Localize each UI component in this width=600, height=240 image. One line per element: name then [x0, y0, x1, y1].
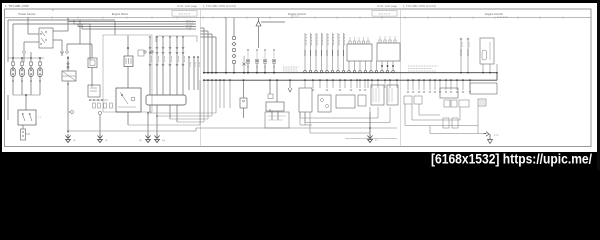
wire to P2a [243, 80, 245, 98]
symbol chain [232, 36, 235, 39]
wire into JC1 2 [162, 37, 164, 95]
page1 legend box [172, 11, 197, 17]
header column ticks [27, 17, 29, 19]
component box P3b with circles [318, 95, 331, 112]
ring connectors on bus A [304, 70, 307, 73]
wire below K4 [264, 63, 266, 73]
ignition switch SW1 [39, 28, 53, 48]
junction G2 stair [147, 112, 149, 114]
small boxes page3 lower pair [443, 118, 449, 128]
component box P2b [266, 102, 284, 111]
dot right col 1 [193, 56, 195, 58]
fusible link box FL1 [88, 58, 97, 68]
wire to connector F2 [21, 58, 23, 62]
sensor ring x100 [98, 111, 101, 114]
wire below JC1 2 [169, 105, 171, 119]
arrow ground tag [494, 134, 499, 136]
wire feed top B [13, 23, 90, 25]
small ring b [151, 51, 153, 53]
fuse row bottom bus [13, 94, 40, 96]
wire drop E [89, 24, 91, 60]
dot above K4 [264, 49, 265, 50]
fuse F3 [29, 68, 33, 77]
dot above K5 [273, 49, 274, 50]
page2 cont drop x208 [207, 31, 209, 73]
wire to connector F3 [30, 58, 32, 62]
component box P3a [299, 88, 312, 112]
letterbox top bar [0, 0, 600, 3]
wire colour tag 5 [184, 56, 186, 62]
page3 tiny note [497, 16, 508, 18]
dot below fuse F3 [30, 80, 32, 82]
page2 legend box [372, 11, 397, 17]
stub above J3 [30, 52, 32, 58]
dot below fuse F2 [21, 80, 23, 82]
hatched box page3 right [478, 99, 486, 106]
letterbox bottom bar [0, 152, 600, 170]
page separator 2-3 [400, 9, 402, 147]
letterbox right edge [597, 0, 600, 170]
fuse F4 [38, 68, 42, 77]
bus right end [496, 73, 498, 81]
tag right col 1 [194, 62, 196, 67]
bus B dots page3 and drops [407, 79, 409, 81]
junction block JB1 [18, 110, 36, 125]
connector box F1 [11, 62, 14, 65]
wire left down [7, 95, 9, 120]
svg-text:Engine Control: Engine Control [288, 12, 306, 16]
wire elbow 1 [73, 20, 75, 24]
wire above R2 [127, 67, 129, 89]
sensor ring x72 [71, 111, 74, 114]
wire below arrow [258, 26, 260, 48]
connector ring C1 [23, 51, 26, 54]
page2 cont wire y37 [201, 36, 217, 38]
wire to fuse F2 [21, 65, 23, 68]
box P2c bottom [265, 112, 289, 128]
wire below P2a [243, 108, 245, 118]
page2 cont wire y28 [201, 27, 205, 29]
connector pair mark 1 [156, 47, 158, 49]
small boxes page3 row [404, 96, 412, 104]
circle on wire R1 b [67, 66, 69, 68]
svg-text:A 22 1 B 14: A 22 1 B 14 [179, 13, 191, 16]
svg-text:1. TOY-ABL-VXW: 1. TOY-ABL-VXW [5, 4, 29, 8]
wire above K3 [256, 50, 258, 59]
inter-page wire y29 [82, 28, 196, 30]
mini connectors row [93, 103, 96, 108]
bus A junction dots page2 [203, 72, 205, 74]
junction dot J1 [12, 57, 14, 59]
svg-text:[6168x1532] https://upic.me/: [6168x1532] https://upic.me/ [431, 152, 592, 167]
page background [0, 0, 600, 170]
component rect page3 A [470, 83, 497, 94]
page2 corner note [291, 15, 299, 17]
connector pair mark 2 [162, 47, 164, 49]
svg-text:ED: ED [105, 140, 108, 142]
header band rule [5, 17, 592, 19]
small box mid [138, 50, 144, 56]
wire switch left pin [24, 41, 39, 43]
fuse F1 [11, 68, 15, 77]
wire below K3 [256, 63, 258, 73]
wire above FL1 [91, 44, 93, 58]
component small box P2a [240, 98, 247, 108]
ECM box left [347, 44, 372, 61]
svg-text:1. TOY-ABL-VXW (Cont’d): 1. TOY-ABL-VXW (Cont’d) [203, 4, 236, 8]
ECM top tabs [349, 41, 351, 44]
arrow symbol A1 [256, 21, 261, 26]
connector pair mark 3 [169, 47, 171, 49]
wire drop to relay block [114, 22, 116, 36]
small ring a [144, 51, 146, 53]
wire branch right [67, 43, 92, 45]
wire elbow 3 [81, 24, 83, 29]
wire colour tag 1 [158, 56, 160, 62]
stub dots under ECM boxes [381, 65, 383, 67]
tag right col 2 [198, 62, 200, 67]
stub to ring x72 [68, 111, 71, 113]
wire to ground G2 [147, 113, 149, 134]
connector pair mark 5 [182, 47, 184, 49]
wire above K4 [264, 50, 266, 59]
wire from switch c [53, 39, 62, 41]
wire to P2b pin2 [276, 80, 278, 102]
junction dot J4 [39, 57, 41, 59]
wire colour tag 4 [178, 56, 180, 62]
wire below relay R1 [67, 81, 69, 133]
long bottom wires page2-3 [300, 117, 378, 119]
svg-text:EC: EC [375, 140, 378, 142]
connector box F2 [20, 62, 23, 65]
bus note text page3 [408, 66, 438, 71]
junction above FL2 [127, 47, 129, 49]
chevron marks below bus mid [312, 89, 314, 91]
stair wire lowest [68, 130, 196, 132]
connector box F3 [29, 62, 32, 65]
wire right col 0 [188, 57, 190, 90]
connector pair mark 0 [149, 47, 151, 49]
JC1 top ticks [149, 36, 150, 37]
wire into JC1 3 [169, 37, 171, 95]
wire feed top A [8, 19, 115, 21]
dot right col 0 [188, 56, 190, 58]
wire into JC1 4 [176, 37, 178, 95]
svg-text:Engine Control: Engine Control [485, 12, 503, 16]
junction G3 stair [156, 115, 158, 117]
ground G5 [97, 134, 102, 143]
wire right col 1 [193, 57, 195, 90]
dot above K2 [247, 49, 248, 50]
wire to switch [28, 33, 39, 35]
inter-page wire y21.5 [68, 21, 196, 23]
junction at G4 [369, 127, 371, 129]
relay box R2 [116, 88, 141, 112]
dot below fuse F1 [12, 80, 14, 82]
horiz wire page2 y22 [261, 21, 285, 23]
wire above arrow [258, 18, 260, 21]
tall component box page3 top [480, 38, 494, 64]
keyhole connector K4 [263, 59, 266, 63]
tag right col 0 [189, 62, 191, 67]
junction row line [8, 57, 44, 59]
sub wires below P3a [299, 112, 301, 125]
inter-page wire y24 [74, 23, 196, 25]
wires above rings left group [304, 33, 306, 70]
wire to P2c [269, 109, 271, 112]
connector pair mark 4 [176, 47, 178, 49]
wire below fuse F2 [21, 77, 23, 96]
wire drop left B [12, 24, 14, 62]
component box P3c [336, 95, 355, 108]
stair wires page1-2 [150, 112, 216, 114]
wire below X1 [243, 66, 245, 73]
page2 cont drop x216 [215, 37, 217, 73]
wire below K2 [247, 63, 249, 73]
bus B dots page3 left [304, 79, 306, 81]
wire right col 2 [197, 57, 199, 90]
wire below fuse F3 [30, 77, 32, 96]
wire below chain [233, 64, 235, 73]
inter-page wire y26.5 [78, 26, 196, 28]
svg-text:Engine Room: Engine Room [112, 12, 129, 16]
junction dot J3 [30, 57, 32, 59]
wire from switch b [53, 30, 68, 32]
risers below tall box [482, 64, 484, 73]
wire below fuse F4 [39, 77, 41, 96]
component rect page3 B [440, 88, 458, 98]
keyhole connector K3 [255, 59, 258, 63]
wire drop left A [7, 20, 9, 62]
wire to ground G5 [99, 115, 101, 134]
wire to connector F1 [12, 58, 14, 62]
junction dots row under B2 [89, 99, 91, 101]
frame top tick [52, 9, 54, 11]
connector box F4 [38, 62, 41, 65]
wire above K2 [247, 50, 249, 59]
keyhole connector K2 [246, 59, 249, 63]
wire to ground G3 [156, 116, 158, 134]
diagram outer frame [5, 9, 592, 147]
main bus line A [203, 72, 497, 74]
relay block enclosure [103, 35, 152, 112]
svg-text:Cont. next page: Cont. next page [177, 4, 197, 8]
wire below C1 [23, 54, 25, 62]
wire elbow 0 [67, 18, 69, 22]
svg-text:A 22 1 B 14: A 22 1 B 14 [379, 13, 391, 16]
wire header col2 drop [67, 18, 69, 31]
circle on wire R1 a [67, 63, 69, 65]
wire below fuse F1 [12, 77, 14, 96]
arrow ground symbol [484, 133, 487, 135]
ground G3 [154, 134, 159, 143]
svg-text:Cont. next page: Cont. next page [377, 4, 397, 8]
bottom wire group page3 [419, 114, 440, 116]
component box P3c2 [358, 95, 366, 106]
svg-text:Power Source: Power Source [19, 12, 36, 16]
wire below P2b a [271, 111, 273, 120]
wire below K5 [273, 63, 275, 73]
fusible link FL2 [124, 56, 133, 67]
ECM box right [377, 43, 400, 61]
wire above X1 [243, 56, 245, 62]
page separator 1-2 [200, 9, 202, 147]
connector ring C3 [66, 51, 69, 54]
keyhole connector K5 [272, 59, 275, 63]
wire to arrow mark [289, 80, 291, 88]
wire below JC1 1 [156, 105, 158, 116]
junction connector JC1 [146, 95, 186, 105]
dot below fuse F4 [39, 80, 41, 82]
cross symbol X1 [243, 63, 246, 66]
wire drop C2 [61, 40, 63, 50]
page2 cont wire y34 [201, 33, 213, 35]
wire to fuse F1 [12, 65, 14, 68]
wire above FL2 [127, 48, 129, 56]
wire drop D [79, 20, 81, 44]
wire to ground G4 [369, 112, 371, 134]
main bus line B [203, 79, 497, 81]
bus B dots page2 [203, 79, 205, 81]
fuse F2 [20, 68, 24, 77]
page2 cont drop x204 [203, 28, 205, 73]
junction dot above R1 [67, 57, 69, 59]
page2 cont drop x212 [211, 34, 213, 73]
wire above chain [233, 18, 235, 36]
ground G2 [145, 134, 150, 143]
wire elbow 2 [77, 24, 79, 27]
tiny box above P2b [268, 94, 273, 99]
ground G4 [367, 134, 372, 143]
wire above K5 [273, 50, 275, 59]
wire into JC1 5 [182, 37, 184, 95]
wire to P2b [269, 80, 271, 94]
svg-text:1. TOY-ABL-VXW (Cont’d): 1. TOY-ABL-VXW (Cont’d) [403, 4, 436, 8]
connector stack below JB1 [21, 129, 31, 140]
arrow mark page2 [288, 88, 292, 92]
wire above relay R1 [67, 56, 69, 71]
small block B2 [88, 85, 100, 97]
long wire y138 [345, 138, 397, 140]
long drops from bus B to stair nest [215, 80, 217, 113]
wire to fuse F3 [30, 65, 32, 68]
letterbox left edge [0, 0, 2, 170]
wire below JC1 3 [176, 105, 178, 122]
wire into JC1 1 [156, 37, 158, 95]
wire JB1 to stack [22, 125, 24, 129]
component box P3d hatched [371, 85, 384, 105]
short drops bus B page2 [219, 80, 221, 108]
wire from header col1 [27, 18, 29, 34]
junction dot J2 [21, 57, 23, 59]
JC1 feed header line [156, 35, 197, 37]
relay R1 [62, 71, 76, 81]
dot below relay R1 [67, 83, 69, 85]
wire to connector F4 [39, 58, 41, 62]
wires into bus page3 right [460, 38, 462, 40]
wire colour tag 0 [151, 56, 153, 62]
wire below P2b b [277, 111, 279, 120]
wire to fuse F4 [39, 65, 41, 68]
page2 cont wire y31 [201, 30, 209, 32]
wire page2 header drop x226 [225, 18, 227, 73]
bus note text page2 [283, 67, 299, 71]
junction dot J5 [25, 94, 27, 96]
ground G1 [65, 134, 70, 143]
dot right col 2 [197, 56, 199, 58]
wire drop to connector [23, 42, 25, 50]
stub below C2 [61, 52, 63, 56]
wire above C3 [66, 44, 68, 50]
wire below R2 [127, 112, 129, 125]
wire below FL1 [91, 68, 93, 88]
wire colour tag 2 [164, 56, 166, 62]
dot above K3 [256, 49, 257, 50]
wire to junction block [25, 95, 27, 110]
wire inside relay block [127, 36, 129, 49]
wire colour tag 3 [171, 56, 173, 62]
wire into JC1 0 [149, 37, 151, 95]
connector ring C2 [61, 51, 64, 54]
component box P3e hatched [387, 85, 398, 105]
long wire y128 page2-3 [290, 127, 397, 129]
wire below JC1 0 [149, 105, 151, 113]
